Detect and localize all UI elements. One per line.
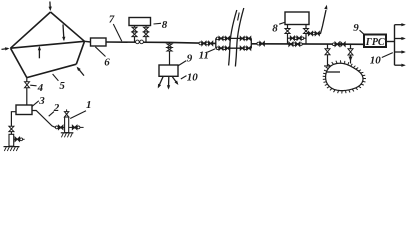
label 10 right leader <box>382 53 393 58</box>
svg-text:10: 10 <box>370 55 382 67</box>
wire consumer manifold <box>394 25 396 65</box>
valve before crossing B <box>209 41 213 45</box>
label 3 leader <box>32 101 39 107</box>
arrow riser <box>324 5 327 10</box>
wire 2 to well <box>32 111 55 128</box>
well side valve left <box>55 125 64 129</box>
arrow into left vertex <box>2 47 10 50</box>
arrow consumer 1 <box>395 23 406 26</box>
valve storage right <box>348 49 353 55</box>
svg-text:ГРС: ГРС <box>365 37 385 48</box>
wire top bypass <box>306 33 319 35</box>
svg-text:4: 4 <box>37 82 44 94</box>
storage left pipe end <box>324 65 331 67</box>
wellhead column 1 <box>65 117 69 133</box>
well ground <box>61 133 74 138</box>
wire ring edge right-bottom <box>76 41 84 64</box>
svg-text:11: 11 <box>199 49 209 61</box>
node left junction <box>215 38 217 48</box>
wire station drop right <box>145 26 147 43</box>
valves middle bypass <box>290 36 303 40</box>
label 1 <box>86 99 92 111</box>
arrow consumer 3 <box>395 50 406 53</box>
label 4 leader <box>30 84 36 87</box>
valve before crossing A <box>202 41 206 45</box>
arrow consumer 4 <box>395 64 406 67</box>
left well ground <box>4 147 20 151</box>
box U8 compressor station right <box>285 12 309 25</box>
svg-text:5: 5 <box>59 80 65 92</box>
valve on drop left <box>285 29 290 34</box>
wire ring to box 6 <box>85 40 91 43</box>
wire upper crossing pipe <box>216 37 252 39</box>
box U9 branch station <box>159 65 178 76</box>
valve pair on right drop <box>144 27 149 36</box>
wellhead top valve <box>64 109 68 117</box>
valves lower right <box>240 46 251 50</box>
arrow up into chord <box>38 46 41 58</box>
svg-text:8: 8 <box>162 19 168 31</box>
label 8 leader <box>154 22 162 25</box>
wire middle bypass <box>288 37 307 39</box>
storage reservoir contour <box>326 63 363 90</box>
wire ring chord <box>11 41 85 48</box>
box U8 compressor station left <box>129 18 151 26</box>
valve left well <box>9 126 14 131</box>
valve storage line B <box>341 42 345 46</box>
box U3 collection point <box>16 105 32 115</box>
storage hachures <box>323 60 366 93</box>
wire ring drop with valve 4 <box>26 78 28 105</box>
label 9 leader <box>178 61 186 66</box>
label 3 <box>38 95 45 107</box>
wire to left well <box>11 112 16 127</box>
well side valve right <box>69 125 84 129</box>
left well side valve <box>14 137 25 141</box>
valve on drop right <box>304 29 309 34</box>
valves top bypass <box>308 31 319 35</box>
arrow into bottom-right vertex <box>77 67 84 76</box>
arrow consumer left <box>158 76 163 88</box>
valve after crossing <box>257 41 265 45</box>
label 10 <box>187 72 199 84</box>
valve storage left <box>325 49 330 55</box>
valve pair on branch <box>167 44 172 51</box>
valves upper left <box>216 36 229 40</box>
wire ring edge top-right <box>51 12 85 41</box>
svg-text:8: 8 <box>272 22 278 34</box>
svg-text:10: 10 <box>187 72 199 84</box>
wire main pipeline right part <box>251 43 364 46</box>
label 2 leader <box>49 112 54 117</box>
fitting circles on line <box>136 40 144 44</box>
valves upper right <box>240 36 251 40</box>
label 10 right <box>370 55 382 67</box>
label 6 leader <box>95 47 105 57</box>
arrow consumer 2 <box>395 37 406 40</box>
box U6 head works <box>91 38 107 46</box>
wire right-station drop right <box>305 25 307 45</box>
label 7 leader <box>113 24 122 41</box>
label 9 <box>187 52 193 64</box>
svg-text:9: 9 <box>187 52 193 64</box>
svg-text:7: 7 <box>109 14 115 26</box>
left wellhead column <box>9 134 14 146</box>
label 11 <box>199 49 209 61</box>
label 8 <box>162 19 168 31</box>
valves on main under station <box>289 42 303 46</box>
label 11 leader <box>208 49 216 52</box>
valve 4 <box>25 82 30 88</box>
label 5 <box>59 80 65 92</box>
river bank left <box>229 10 237 66</box>
svg-text:1: 1 <box>86 99 92 111</box>
label GRS <box>365 37 385 48</box>
label 7 <box>109 14 115 26</box>
label 1 leader <box>70 111 86 119</box>
label 10 leader <box>181 76 187 79</box>
label 5 leader <box>53 74 59 81</box>
wire left wellhead stem <box>10 132 12 135</box>
wire storage riser right <box>350 44 352 63</box>
river bank right <box>235 8 243 67</box>
wire GRS to manifold <box>386 41 395 43</box>
svg-text:6: 6 <box>104 57 110 69</box>
wire ring edge left-top <box>11 12 51 48</box>
box GRS <box>364 35 386 48</box>
label 8 right <box>272 22 278 34</box>
label 9 right leader <box>360 30 366 35</box>
valve flange on line <box>333 43 336 46</box>
valve flange before crossing <box>199 42 202 45</box>
wire storage riser left <box>327 44 329 66</box>
check valve down <box>349 57 353 62</box>
wire main pipeline left part <box>106 42 216 43</box>
arrow down into chord <box>62 25 65 42</box>
label 8 right leader <box>279 22 284 24</box>
wire lower crossing pipe <box>216 47 252 49</box>
valve flange mid <box>206 42 209 45</box>
svg-text:9: 9 <box>353 22 359 34</box>
label 6 <box>104 57 110 69</box>
wire right-station drop left <box>287 25 289 45</box>
wire ring edge bottom-left <box>11 48 27 77</box>
label 9 right <box>353 22 359 34</box>
node right junction <box>250 38 252 48</box>
arrow into top vertex <box>49 2 52 12</box>
svg-text:3: 3 <box>38 95 45 107</box>
label 4 <box>37 82 44 94</box>
valves lower left <box>216 46 229 50</box>
storage internal level <box>327 71 340 73</box>
wire riser to next line <box>319 10 327 34</box>
arrow consumer right <box>172 76 178 85</box>
label 2 <box>53 102 60 114</box>
valve storage line A <box>335 42 339 46</box>
wire station drop left <box>134 26 136 43</box>
wire branch drop <box>169 42 171 65</box>
svg-text:2: 2 <box>53 102 60 114</box>
valve pair on left drop <box>132 27 137 36</box>
wire ring edge bottom <box>27 64 77 77</box>
arrow consumer mid <box>167 76 170 89</box>
river tick <box>238 13 240 21</box>
